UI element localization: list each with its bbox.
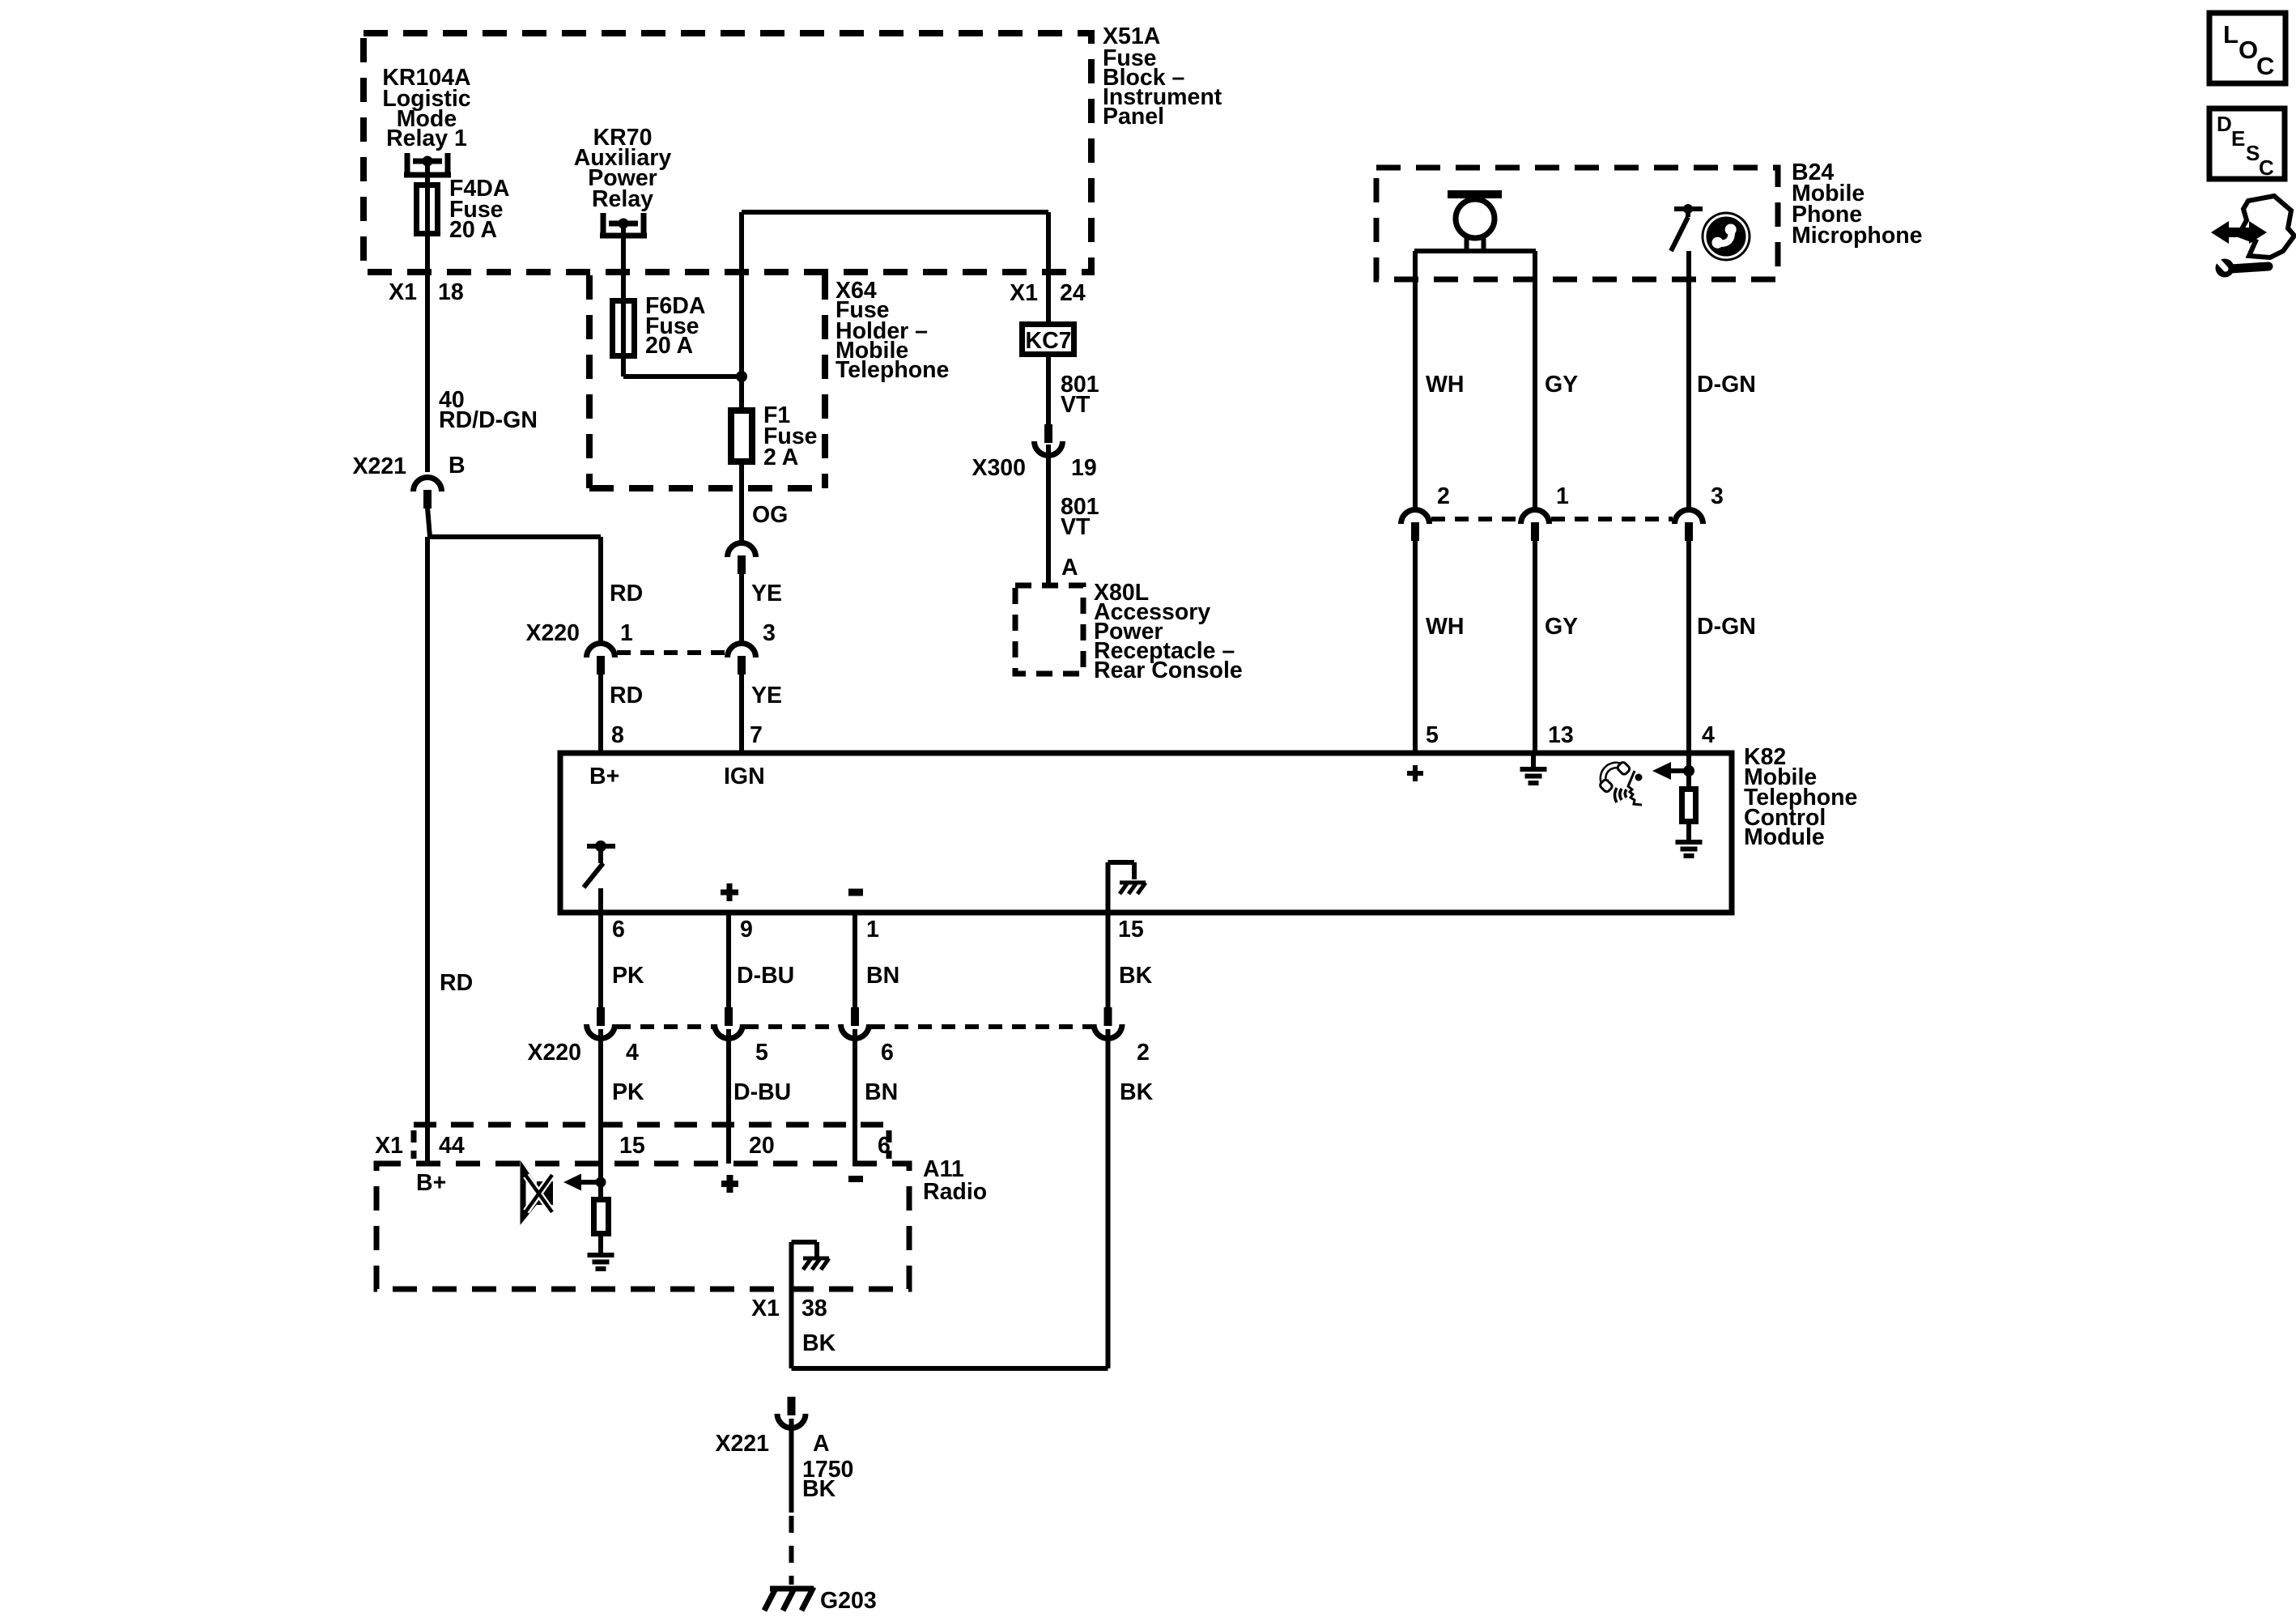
svg-text:44: 44 (439, 1133, 465, 1159)
svg-text:BK: BK (1119, 963, 1153, 989)
svg-text:VT: VT (1061, 392, 1091, 418)
svg-text:20: 20 (749, 1133, 775, 1159)
svg-text:RD: RD (610, 683, 643, 709)
svg-text:13: 13 (1548, 722, 1574, 748)
svg-text:VT: VT (1061, 514, 1091, 540)
svg-text:X1: X1 (375, 1133, 403, 1159)
svg-text:RD: RD (440, 970, 473, 996)
svg-text:WH: WH (1426, 372, 1464, 398)
svg-text:GY: GY (1545, 614, 1578, 640)
svg-text:15: 15 (619, 1133, 645, 1159)
svg-text:7: 7 (750, 722, 763, 748)
svg-text:X1: X1 (389, 279, 417, 305)
svg-text:1: 1 (620, 620, 633, 646)
svg-text:G203: G203 (820, 1588, 877, 1614)
svg-text:6: 6 (878, 1133, 891, 1159)
svg-text:D-GN: D-GN (1697, 372, 1756, 398)
svg-text:RD/D-GN: RD/D-GN (439, 407, 538, 433)
svg-text:GY: GY (1545, 372, 1578, 398)
svg-text:X300: X300 (972, 455, 1026, 481)
svg-text:PK: PK (612, 1079, 644, 1105)
svg-text:4: 4 (1702, 722, 1715, 748)
svg-text:X221: X221 (715, 1431, 769, 1457)
svg-text:5: 5 (1426, 722, 1439, 748)
svg-text:KC7: KC7 (1025, 328, 1071, 354)
svg-text:X1: X1 (1010, 280, 1038, 306)
svg-text:C: C (2256, 52, 2274, 80)
svg-text:5: 5 (755, 1040, 768, 1066)
svg-text:BK: BK (802, 1330, 836, 1356)
svg-text:A: A (813, 1431, 830, 1457)
svg-text:D-GN: D-GN (1697, 614, 1756, 640)
svg-text:Relay 1: Relay 1 (386, 126, 467, 151)
svg-text:B: B (449, 453, 466, 479)
svg-text:24: 24 (1060, 280, 1086, 306)
svg-text:Rear Console: Rear Console (1094, 657, 1243, 683)
svg-text:15: 15 (1118, 917, 1144, 943)
svg-text:YE: YE (751, 683, 782, 709)
svg-text:X220: X220 (525, 620, 580, 646)
svg-text:4: 4 (626, 1040, 639, 1066)
svg-text:RD: RD (610, 581, 643, 606)
svg-text:8: 8 (611, 722, 624, 748)
svg-text:1: 1 (1556, 483, 1569, 509)
svg-text:YE: YE (751, 581, 782, 606)
svg-text:X220: X220 (527, 1040, 581, 1066)
svg-text:3: 3 (763, 620, 776, 646)
svg-text:2: 2 (1437, 483, 1450, 509)
svg-text:BN: BN (865, 1079, 898, 1105)
svg-text:BN: BN (866, 963, 899, 989)
svg-text:B+: B+ (589, 764, 619, 789)
svg-text:WH: WH (1426, 614, 1464, 640)
svg-text:D-BU: D-BU (737, 963, 794, 989)
svg-text:20 A: 20 A (645, 333, 693, 359)
svg-text:2: 2 (1137, 1040, 1150, 1066)
svg-text:D-BU: D-BU (733, 1079, 791, 1105)
svg-text:Radio: Radio (923, 1179, 987, 1205)
svg-text:Panel: Panel (1103, 104, 1164, 130)
svg-text:E: E (2231, 126, 2245, 151)
svg-text:PK: PK (612, 963, 644, 989)
svg-text:IGN: IGN (724, 764, 765, 789)
svg-text:1: 1 (866, 917, 879, 943)
svg-text:BK: BK (1120, 1079, 1154, 1105)
svg-text:L: L (2223, 20, 2239, 49)
svg-text:19: 19 (1071, 455, 1097, 481)
svg-text:OG: OG (752, 502, 788, 528)
svg-text:38: 38 (801, 1296, 827, 1321)
svg-text:6: 6 (881, 1040, 894, 1066)
svg-text:Telephone: Telephone (835, 357, 949, 383)
svg-text:BK: BK (802, 1476, 836, 1502)
svg-text:A: A (1061, 555, 1078, 581)
svg-text:C: C (2259, 155, 2274, 180)
svg-text:2 A: 2 A (763, 445, 798, 470)
svg-text:3: 3 (1711, 483, 1724, 509)
svg-text:18: 18 (438, 279, 464, 305)
svg-text:X1: X1 (751, 1296, 780, 1321)
svg-text:6: 6 (612, 917, 625, 943)
svg-text:Relay: Relay (592, 186, 653, 212)
svg-text:X221: X221 (352, 453, 406, 479)
svg-text:S: S (2246, 141, 2260, 165)
svg-text:Module: Module (1744, 824, 1825, 850)
svg-text:Microphone: Microphone (1792, 223, 1923, 249)
svg-text:B+: B+ (416, 1170, 446, 1196)
svg-text:20 A: 20 A (449, 217, 497, 243)
svg-text:D: D (2217, 112, 2232, 136)
svg-text:9: 9 (740, 917, 753, 943)
svg-text:O: O (2239, 36, 2258, 64)
